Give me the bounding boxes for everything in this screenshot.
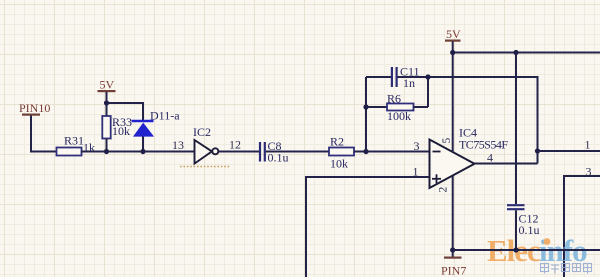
wire feedback to output — [428, 77, 538, 164]
wire C12 top — [515, 53, 517, 205]
wire IC2 pin 12 to C8 — [219, 151, 260, 153]
svg-text:R2: R2 — [330, 135, 344, 149]
node rail / pin5 — [450, 50, 455, 55]
output wire pin 4 — [475, 163, 538, 165]
wire R31 to node A — [82, 151, 107, 153]
inverter IC2 — [195, 140, 219, 164]
resistor R33 — [102, 116, 110, 139]
svg-text:0.1u: 0.1u — [519, 223, 540, 237]
power symbol 5V left — [98, 78, 116, 104]
svg-text:3: 3 — [586, 165, 592, 179]
node C12 bottom — [513, 247, 518, 252]
svg-text:4: 4 — [487, 151, 493, 165]
capacitor C12 — [507, 205, 525, 250]
wire node B to IC4 pin 3 — [366, 151, 430, 153]
node B junction — [363, 149, 368, 154]
op-amp IC4 — [430, 140, 475, 189]
node D11 bottom — [140, 149, 145, 154]
svg-text:0.1u: 0.1u — [268, 151, 289, 165]
wire IC4 pin 2 down — [452, 176, 454, 251]
wire node to IC2 pin 13 — [107, 151, 195, 153]
resistor R2 — [329, 148, 354, 156]
svg-text:1n: 1n — [403, 76, 415, 90]
svg-text:TC75S54F: TC75S54F — [459, 138, 508, 152]
node pin2 / PIN7 — [450, 247, 455, 252]
wire IC4 pin 5 power — [452, 53, 454, 153]
svg-text:5V: 5V — [446, 27, 461, 41]
resistor R6 — [366, 77, 428, 111]
node R6 left — [363, 104, 368, 109]
capacitor C11 — [366, 67, 428, 87]
svg-text:R31: R31 — [64, 134, 84, 148]
watermark chinese characters — [541, 264, 592, 274]
power symbol 5V right — [445, 27, 461, 53]
watermark Elecinfo — [487, 233, 587, 268]
resistor R31 — [57, 148, 82, 156]
svg-text:D11-a: D11-a — [150, 109, 180, 123]
svg-text:5V: 5V — [100, 78, 115, 92]
wire net 1 to right edge — [538, 150, 600, 152]
node R33/D11 on signal wire — [104, 149, 109, 154]
svg-text:5: 5 — [441, 138, 453, 144]
wire net 3 right edge — [564, 176, 600, 277]
svg-text:12: 12 — [229, 138, 241, 152]
wire PIN10 to R31 — [31, 116, 57, 152]
wire C8 to R2 — [266, 151, 329, 153]
node at 5V / R33 / D11 — [104, 100, 109, 105]
svg-text:PIN10: PIN10 — [19, 101, 50, 115]
svg-text:PIN7: PIN7 — [441, 264, 466, 277]
svg-text:13: 13 — [172, 138, 184, 152]
node C11/R6 right — [425, 74, 430, 79]
svg-text:1: 1 — [585, 138, 591, 152]
bottom rail — [453, 249, 600, 251]
port PIN10 — [19, 101, 50, 116]
svg-text:10k: 10k — [330, 157, 348, 171]
svg-text:3: 3 — [414, 139, 420, 153]
feedback vertical wire — [365, 77, 367, 152]
wire 5V node down to R33 — [106, 103, 108, 116]
svg-text:2: 2 — [438, 187, 450, 193]
wire to IC4 pin 1 (+) — [306, 177, 430, 277]
svg-text:1: 1 — [413, 165, 419, 179]
5V rail — [453, 52, 600, 54]
wire R2 to node B — [354, 151, 366, 153]
node output / net 1 — [535, 148, 540, 153]
diode D11-a — [132, 121, 155, 152]
svg-text:R6: R6 — [387, 92, 401, 106]
svg-text:10k: 10k — [112, 124, 130, 138]
svg-text:IC2: IC2 — [193, 125, 211, 139]
svg-text:100k: 100k — [387, 109, 411, 123]
node rail / C12 — [513, 50, 518, 55]
wire 5V node to D11 top — [107, 103, 144, 120]
orange dotted underline — [180, 166, 230, 168]
port PIN7 — [441, 250, 466, 277]
capacitor C8 — [260, 142, 265, 162]
wire R33 bottom — [106, 139, 108, 152]
